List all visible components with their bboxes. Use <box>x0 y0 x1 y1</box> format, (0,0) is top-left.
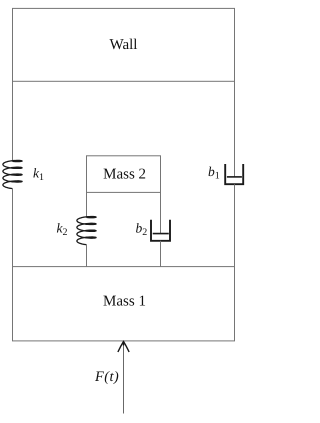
label Wall <box>110 37 138 53</box>
label F(t) <box>94 369 119 385</box>
force arrow shaft <box>123 342 125 414</box>
label k1 <box>33 166 44 184</box>
damper b1 piston <box>227 176 242 178</box>
label Mass 1 <box>103 294 146 310</box>
mass 2 box <box>87 156 161 193</box>
wire left upper <box>12 81 14 161</box>
svg-text:Mass 2: Mass 2 <box>103 166 146 182</box>
label b2 <box>136 220 148 238</box>
force arrowhead <box>118 342 129 353</box>
svg-text:Mass 1: Mass 1 <box>103 294 146 310</box>
wire mass2 to spring k2 <box>86 192 88 217</box>
label k2 <box>57 221 68 239</box>
damper b2 cup <box>151 220 170 241</box>
wire right rod into damper b1 <box>234 81 236 177</box>
svg-text:Wall: Wall <box>110 37 138 53</box>
svg-text:k1: k1 <box>33 166 44 184</box>
svg-text:F(t): F(t) <box>94 369 119 385</box>
mass 1 box <box>13 267 235 341</box>
svg-text:b1: b1 <box>208 164 220 182</box>
label Mass 2 <box>103 166 146 182</box>
svg-text:b2: b2 <box>136 220 148 238</box>
wire right lower <box>234 184 236 266</box>
rod mass2 to damper b2 <box>160 192 162 233</box>
wire b2 to mass1 <box>160 241 162 267</box>
spring k2 <box>77 217 96 245</box>
damper b1 cup <box>225 164 243 184</box>
wire spring k2 to mass1 <box>86 245 88 267</box>
svg-text:k2: k2 <box>57 221 68 239</box>
damper b2 piston <box>153 233 169 235</box>
spring k1 <box>3 160 22 188</box>
label b1 <box>208 164 220 182</box>
wire left lower <box>12 189 14 267</box>
wall box <box>13 8 235 81</box>
